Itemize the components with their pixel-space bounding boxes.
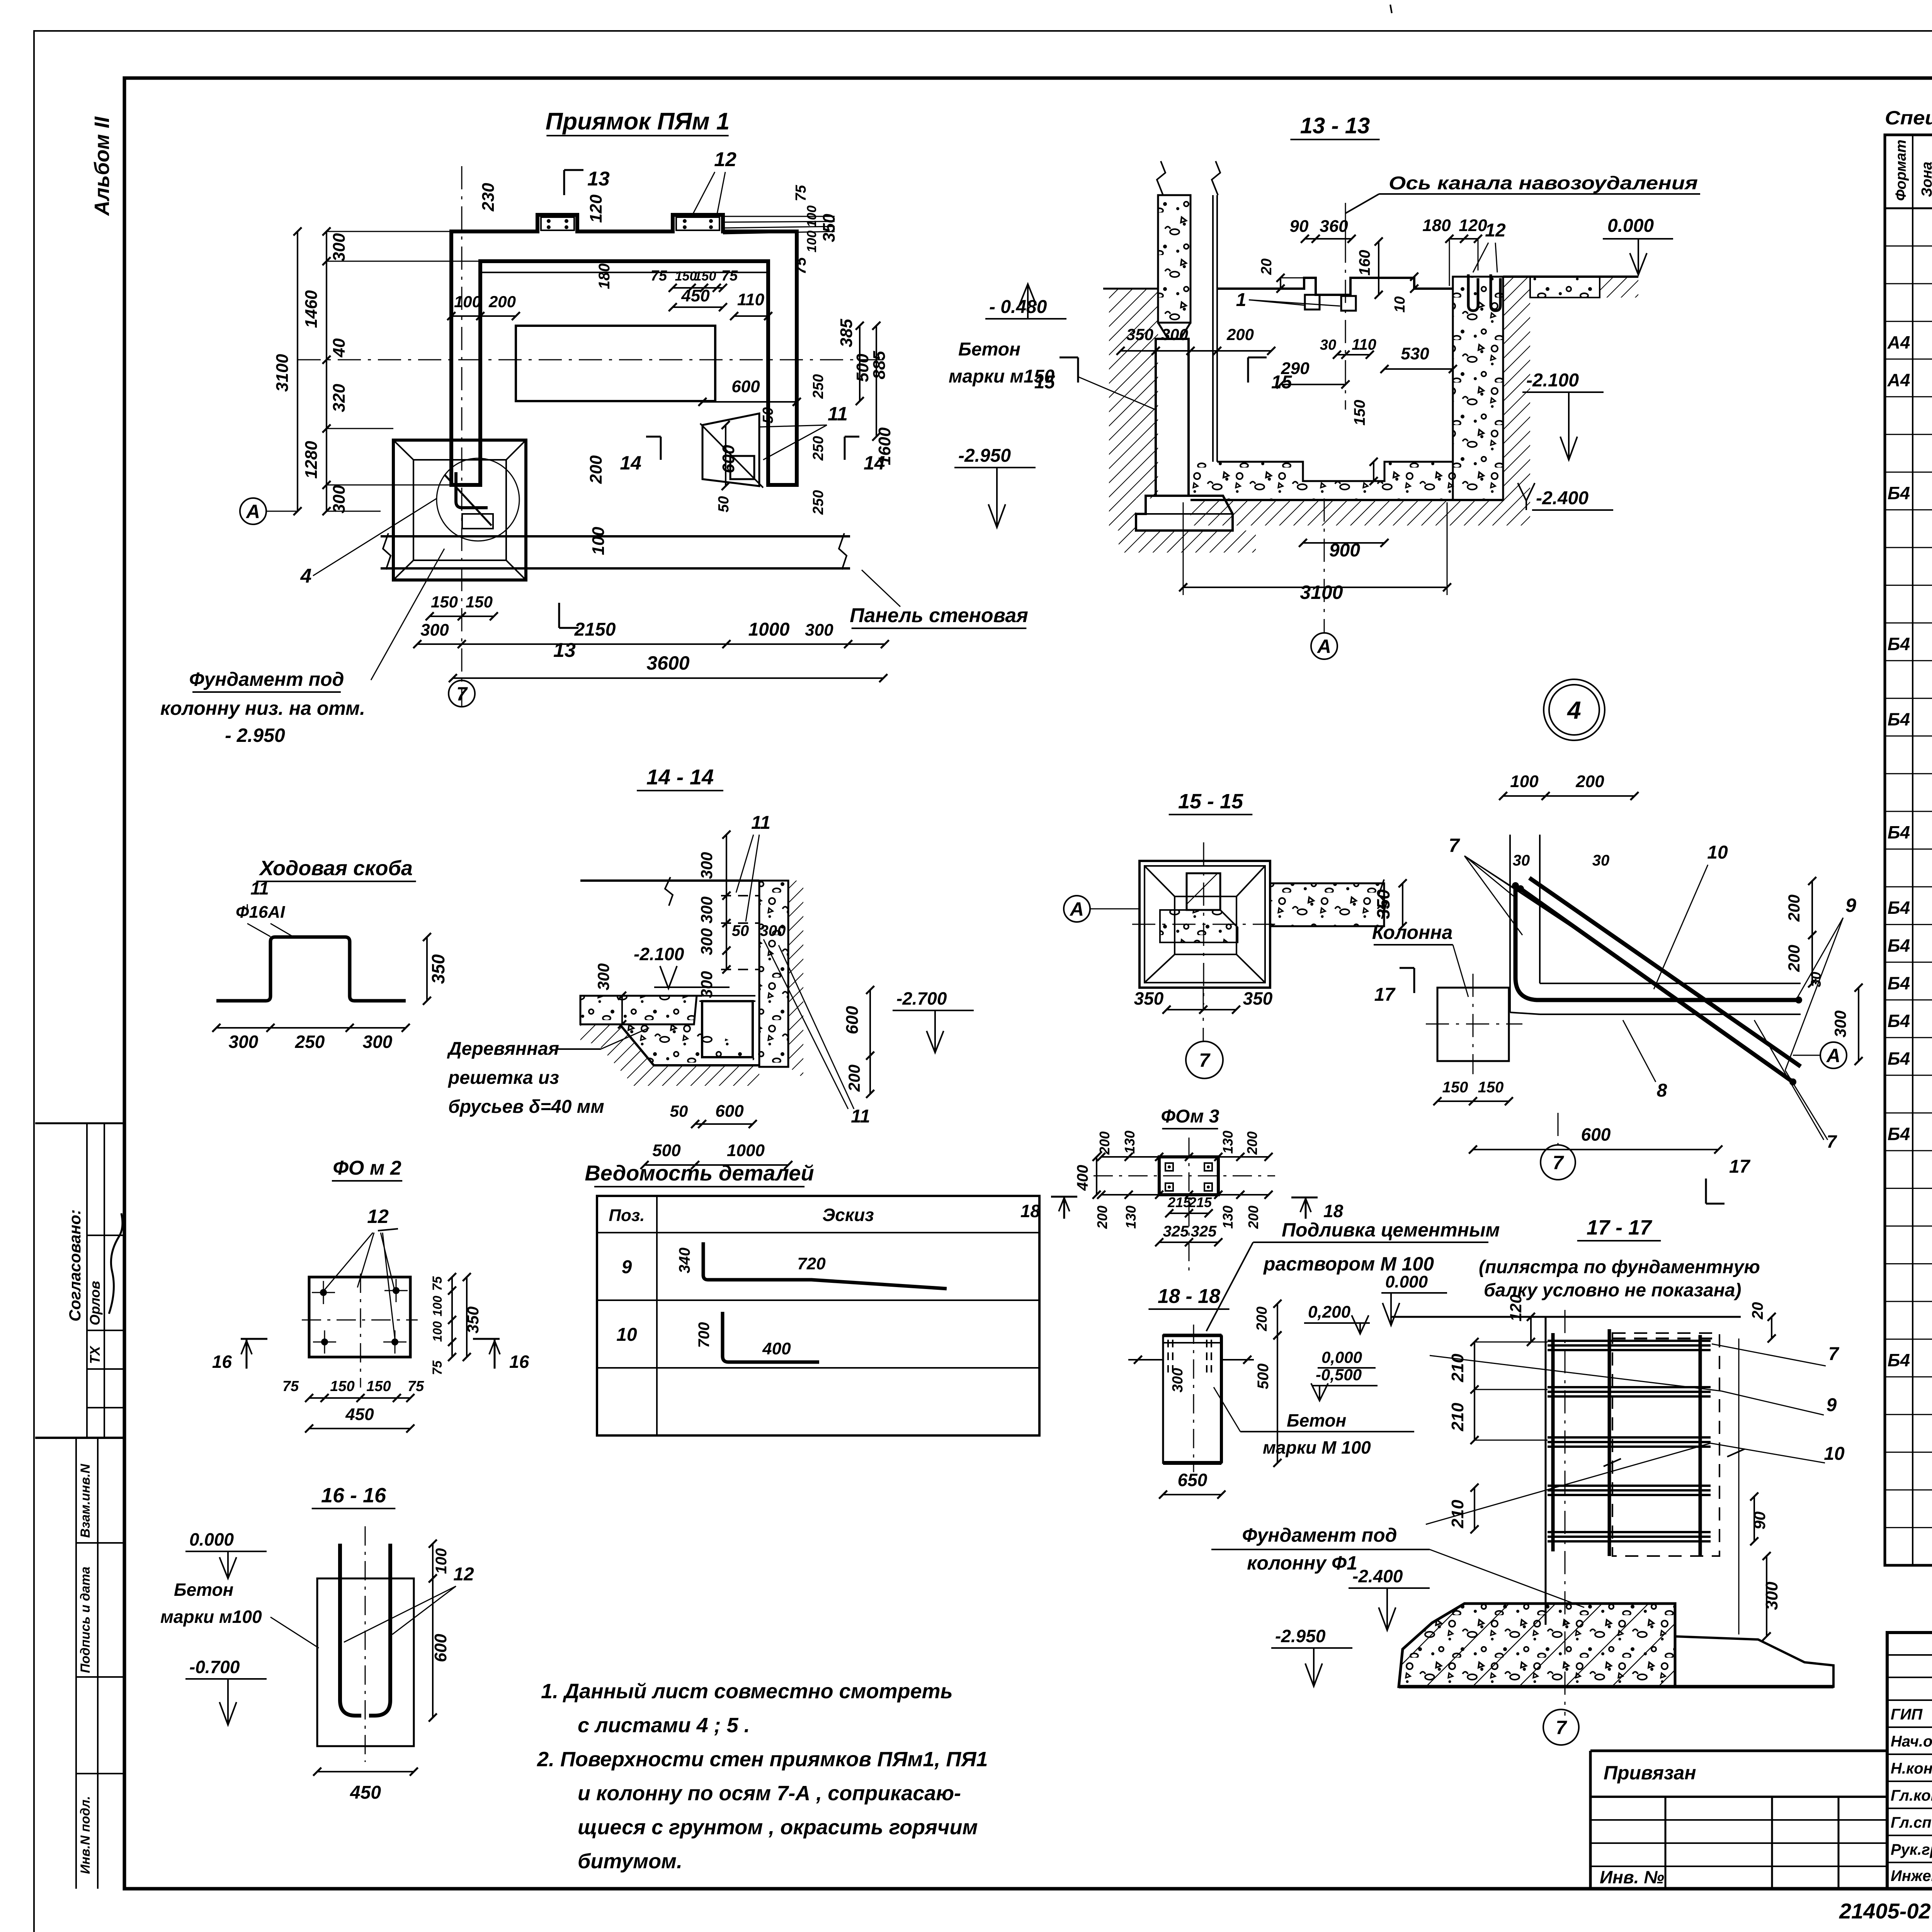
svg-text:ФО м 2: ФО м 2 — [333, 1157, 401, 1179]
svg-text:ГИП: ГИП — [1891, 1706, 1923, 1723]
svg-text:7: 7 — [1553, 1152, 1564, 1173]
svg-text:7: 7 — [1449, 835, 1460, 856]
svg-text:450: 450 — [345, 1405, 374, 1424]
svg-text:12: 12 — [453, 1564, 474, 1585]
svg-text:500: 500 — [652, 1141, 681, 1160]
svg-text:А4: А4 — [1887, 370, 1910, 390]
svg-text:90: 90 — [1290, 217, 1309, 236]
svg-text:300: 300 — [1762, 1582, 1781, 1610]
svg-text:210: 210 — [1448, 1500, 1467, 1529]
svg-text:600: 600 — [731, 377, 760, 396]
svg-text:15: 15 — [1271, 372, 1293, 393]
svg-text:300: 300 — [697, 928, 716, 955]
svg-text:Б4: Б4 — [1888, 973, 1910, 993]
svg-text:8: 8 — [1657, 1080, 1667, 1101]
svg-text:2150: 2150 — [574, 619, 616, 640]
svg-text:200: 200 — [1575, 772, 1604, 791]
svg-text:300: 300 — [1170, 1368, 1186, 1392]
svg-text:Ось канала навозоудаления: Ось канала навозоудаления — [1389, 173, 1698, 194]
svg-text:325: 325 — [1191, 1223, 1217, 1240]
svg-text:Б4: Б4 — [1888, 634, 1910, 654]
svg-text:Формат: Формат — [1893, 139, 1909, 201]
svg-text:300: 300 — [760, 922, 786, 939]
svg-text:Б4: Б4 — [1888, 1048, 1910, 1068]
svg-text:17: 17 — [1729, 1156, 1751, 1177]
svg-text:100: 100 — [589, 527, 608, 555]
svg-text:120: 120 — [587, 194, 605, 223]
svg-text:А: А — [1316, 636, 1331, 657]
svg-text:7: 7 — [1199, 1049, 1211, 1071]
svg-text:600: 600 — [843, 1006, 862, 1034]
svg-text:150: 150 — [1351, 400, 1368, 426]
svg-text:500: 500 — [853, 354, 872, 382]
svg-text:200: 200 — [1254, 1306, 1270, 1331]
svg-text:11: 11 — [851, 1106, 870, 1127]
svg-text:230: 230 — [479, 183, 498, 212]
svg-text:150: 150 — [675, 269, 697, 284]
svg-text:450: 450 — [350, 1782, 381, 1803]
svg-text:75: 75 — [430, 1276, 445, 1291]
svg-text:Б4: Б4 — [1888, 709, 1910, 729]
svg-text:200: 200 — [1785, 945, 1803, 972]
svg-text:7: 7 — [1828, 1344, 1840, 1364]
svg-text:13: 13 — [553, 639, 576, 662]
svg-text:130: 130 — [1220, 1206, 1236, 1229]
svg-text:100: 100 — [430, 1296, 444, 1316]
svg-text:50: 50 — [670, 1102, 688, 1120]
svg-text:250: 250 — [810, 374, 827, 399]
svg-text:18 - 18: 18 - 18 — [1158, 1285, 1220, 1308]
svg-text:600: 600 — [431, 1634, 450, 1662]
svg-text:50: 50 — [716, 496, 732, 512]
svg-text:17 - 17: 17 - 17 — [1587, 1216, 1653, 1239]
svg-text:9: 9 — [1827, 1395, 1837, 1415]
svg-text:4: 4 — [1566, 696, 1581, 724]
svg-text:Ходовая скоба: Ходовая скоба — [259, 857, 413, 880]
svg-text:Колонна: Колонна — [1372, 922, 1453, 943]
svg-text:11: 11 — [751, 813, 770, 833]
svg-text:-2.400: -2.400 — [1536, 488, 1588, 509]
svg-text:решетка из: решетка из — [447, 1068, 559, 1088]
svg-text:130: 130 — [1122, 1131, 1138, 1154]
svg-text:13 - 13: 13 - 13 — [1300, 113, 1370, 138]
svg-text:(пилястра по фундаментную: (пилястра по фундаментную — [1479, 1257, 1760, 1277]
svg-text:Деревянная: Деревянная — [447, 1039, 559, 1059]
svg-text:18: 18 — [1020, 1201, 1041, 1221]
svg-text:150: 150 — [1478, 1079, 1504, 1096]
svg-text:350: 350 — [428, 954, 448, 984]
svg-text:16: 16 — [212, 1352, 232, 1372]
svg-text:300: 300 — [363, 1032, 393, 1052]
svg-text:марки м100: марки м100 — [160, 1607, 262, 1627]
svg-text:200: 200 — [1785, 895, 1803, 922]
svg-text:350: 350 — [820, 214, 838, 242]
svg-text:130: 130 — [1123, 1206, 1139, 1229]
svg-text:марки м150: марки м150 — [949, 366, 1054, 387]
svg-text:Бетон: Бетон — [958, 339, 1020, 360]
svg-text:4: 4 — [300, 565, 312, 587]
svg-text:Эскиз: Эскиз — [822, 1205, 874, 1225]
svg-text:20: 20 — [1259, 259, 1275, 275]
svg-text:14: 14 — [864, 452, 885, 474]
svg-text:-2.100: -2.100 — [1526, 370, 1579, 391]
svg-text:120: 120 — [1507, 1294, 1525, 1321]
svg-text:Гл.констр.: Гл.констр. — [1891, 1787, 1932, 1804]
svg-text:150: 150 — [1442, 1079, 1468, 1096]
svg-text:марки М 100: марки М 100 — [1263, 1437, 1371, 1458]
svg-text:Б4: Б4 — [1888, 1124, 1910, 1144]
svg-text:300: 300 — [594, 963, 612, 990]
svg-text:300: 300 — [1831, 1010, 1849, 1037]
svg-text:Нач.отд.: Нач.отд. — [1891, 1733, 1932, 1750]
svg-text:16 - 16: 16 - 16 — [321, 1484, 386, 1507]
svg-text:100: 100 — [804, 231, 819, 253]
svg-text:-2.100: -2.100 — [634, 944, 684, 964]
svg-text:215: 215 — [1167, 1194, 1191, 1210]
svg-text:215: 215 — [1188, 1194, 1212, 1210]
svg-text:100: 100 — [430, 1321, 444, 1342]
svg-text:75: 75 — [282, 1378, 299, 1395]
svg-text:75: 75 — [651, 268, 667, 284]
svg-text:11: 11 — [828, 403, 848, 425]
svg-text:350: 350 — [1126, 325, 1153, 344]
svg-text:300: 300 — [805, 621, 833, 639]
svg-text:210: 210 — [1448, 1403, 1467, 1432]
svg-text:брусьев δ=40 мм: брусьев δ=40 мм — [448, 1097, 604, 1117]
svg-text:А: А — [245, 501, 260, 522]
svg-text:1280: 1280 — [302, 441, 321, 479]
svg-text:колонну Ф1: колонну Ф1 — [1247, 1552, 1357, 1574]
svg-text:Инв.N подл.: Инв.N подл. — [78, 1796, 93, 1874]
svg-text:350: 350 — [1243, 988, 1273, 1009]
svg-text:250: 250 — [810, 490, 827, 515]
svg-text:600: 600 — [719, 445, 738, 473]
svg-text:7: 7 — [1827, 1131, 1837, 1151]
svg-text:20: 20 — [1749, 1302, 1766, 1320]
svg-text:0.000: 0.000 — [189, 1529, 234, 1549]
svg-text:885: 885 — [870, 351, 889, 379]
svg-text:500: 500 — [1255, 1364, 1272, 1389]
svg-text:Инв. №: Инв. № — [1600, 1867, 1664, 1887]
svg-text:-2.700: -2.700 — [896, 988, 947, 1009]
svg-text:300: 300 — [420, 621, 449, 639]
svg-text:150: 150 — [366, 1378, 391, 1395]
svg-text:Б4: Б4 — [1888, 822, 1910, 842]
svg-text:щиеся с грунтом , окрасить: щиеся с грунтом , окрасить горячим — [578, 1816, 978, 1839]
svg-text:350: 350 — [1373, 889, 1393, 919]
svg-text:ТХ: ТХ — [87, 1345, 103, 1364]
svg-text:700: 700 — [696, 1322, 713, 1348]
svg-text:16: 16 — [509, 1352, 529, 1372]
svg-text:1000: 1000 — [727, 1141, 765, 1160]
svg-text:14 - 14: 14 - 14 — [646, 765, 714, 789]
svg-text:10: 10 — [616, 1325, 637, 1345]
svg-text:300: 300 — [229, 1032, 259, 1052]
svg-text:12: 12 — [714, 148, 736, 171]
svg-text:200: 200 — [587, 455, 605, 484]
svg-text:Б4: Б4 — [1888, 1011, 1910, 1031]
svg-text:250: 250 — [810, 436, 827, 461]
svg-text:160: 160 — [1356, 250, 1373, 276]
svg-text:150: 150 — [330, 1378, 354, 1395]
svg-text:75: 75 — [721, 268, 738, 284]
svg-text:100: 100 — [1510, 772, 1539, 791]
svg-text:Спецификация элементов приям: Спецификация элементов приямка ПЯм1 и мо… — [1885, 107, 1932, 129]
svg-text:300: 300 — [1161, 325, 1188, 344]
svg-text:120: 120 — [1459, 216, 1487, 235]
svg-text:400: 400 — [762, 1339, 791, 1358]
svg-text:А: А — [1069, 898, 1084, 920]
svg-text:Панель стеновая: Панель стеновая — [850, 604, 1028, 627]
svg-text:360: 360 — [1320, 217, 1348, 236]
svg-text:180: 180 — [596, 264, 613, 289]
svg-text:ФОм 3: ФОм 3 — [1161, 1106, 1219, 1127]
svg-text:17: 17 — [1374, 985, 1396, 1005]
svg-text:350: 350 — [464, 1306, 482, 1333]
svg-text:Зона: Зона — [1919, 162, 1932, 197]
svg-text:300: 300 — [330, 233, 349, 262]
svg-text:и колонну по осям 7-А , со: и колонну по осям 7-А , соприкасаю- — [578, 1782, 961, 1805]
svg-text:75: 75 — [792, 257, 809, 274]
svg-text:10: 10 — [1707, 842, 1728, 863]
svg-text:150: 150 — [694, 269, 716, 284]
svg-text:Гл.спец.: Гл.спец. — [1891, 1814, 1932, 1831]
svg-text:100: 100 — [454, 293, 481, 311]
svg-text:3600: 3600 — [646, 652, 689, 674]
svg-text:3100: 3100 — [1300, 582, 1343, 603]
svg-text:75: 75 — [408, 1378, 424, 1395]
svg-text:Взам.инв.N: Взам.инв.N — [78, 1463, 93, 1538]
svg-text:30: 30 — [1320, 337, 1336, 353]
svg-text:150: 150 — [431, 593, 458, 611]
svg-text:12: 12 — [1485, 220, 1506, 241]
svg-text:0.000: 0.000 — [1385, 1272, 1428, 1291]
svg-text:А4: А4 — [1887, 332, 1910, 352]
svg-text:Н.контр.: Н.контр. — [1891, 1760, 1932, 1777]
svg-text:-2.950: -2.950 — [1275, 1626, 1326, 1646]
svg-text:12: 12 — [367, 1206, 389, 1227]
svg-text:13: 13 — [587, 168, 610, 190]
svg-text:200: 200 — [1245, 1206, 1261, 1229]
svg-text:300: 300 — [330, 485, 349, 514]
svg-text:- 0.480: - 0.480 — [989, 297, 1047, 317]
svg-text:Б4: Б4 — [1888, 1350, 1910, 1370]
svg-text:100: 100 — [804, 206, 819, 228]
svg-text:40: 40 — [330, 338, 349, 357]
svg-text:Подпись и дата: Подпись и дата — [78, 1566, 93, 1673]
svg-text:300: 300 — [697, 896, 716, 923]
svg-text:10: 10 — [1392, 296, 1408, 313]
svg-text:-2.400: -2.400 — [1352, 1566, 1403, 1586]
svg-text:75: 75 — [430, 1360, 445, 1375]
svg-text:150: 150 — [466, 593, 493, 611]
svg-text:50: 50 — [760, 407, 776, 423]
svg-text:Орлов: Орлов — [87, 1281, 103, 1325]
svg-text:100: 100 — [433, 1548, 450, 1574]
svg-text:-0.700: -0.700 — [189, 1657, 240, 1677]
svg-text:30: 30 — [1513, 852, 1530, 869]
svg-text:с листами 4 ; 5 .: с листами 4 ; 5 . — [578, 1714, 750, 1737]
svg-text:385: 385 — [837, 319, 856, 347]
svg-text:- 2.950: - 2.950 — [225, 724, 285, 746]
svg-text:200: 200 — [845, 1065, 863, 1092]
svg-text:200: 200 — [1094, 1206, 1110, 1229]
svg-text:-0,500: -0,500 — [1316, 1366, 1362, 1384]
svg-text:180: 180 — [1422, 216, 1451, 235]
svg-text:30: 30 — [1808, 972, 1824, 987]
svg-text:50: 50 — [732, 922, 749, 939]
svg-text:21405-02: 21405-02 — [1839, 1899, 1931, 1923]
svg-text:-2.950: -2.950 — [958, 446, 1011, 466]
svg-text:Фундамент под: Фундамент под — [1242, 1524, 1397, 1546]
svg-text:200: 200 — [1244, 1131, 1260, 1155]
svg-text:90: 90 — [1750, 1512, 1769, 1530]
svg-text:450: 450 — [681, 286, 710, 305]
svg-text:Поз.: Поз. — [609, 1206, 645, 1225]
svg-text:Ф16АI: Ф16АI — [236, 903, 285, 922]
svg-text:18: 18 — [1323, 1201, 1344, 1221]
svg-text:0.000: 0.000 — [1607, 216, 1654, 236]
svg-text:10: 10 — [1824, 1444, 1845, 1464]
svg-text:200: 200 — [1226, 325, 1254, 344]
svg-text:340: 340 — [676, 1248, 693, 1274]
svg-text:Альбом II: Альбом II — [90, 116, 114, 216]
svg-text:600: 600 — [1581, 1124, 1611, 1145]
svg-text:130: 130 — [1220, 1131, 1236, 1154]
svg-text:битумом.: битумом. — [578, 1850, 682, 1873]
svg-text:Приямок ПЯм 1: Приямок ПЯм 1 — [546, 108, 730, 135]
svg-text:Б4: Б4 — [1888, 483, 1910, 503]
svg-text:А: А — [1826, 1045, 1840, 1066]
svg-text:1: 1 — [1236, 290, 1247, 310]
svg-text:Инженер: Инженер — [1891, 1867, 1932, 1884]
svg-text:200: 200 — [488, 293, 516, 311]
svg-text:300: 300 — [697, 852, 716, 879]
svg-text:200: 200 — [1097, 1131, 1112, 1155]
svg-text:15 - 15: 15 - 15 — [1178, 790, 1243, 813]
svg-text:1000: 1000 — [748, 619, 790, 640]
svg-text:Б4: Б4 — [1888, 898, 1910, 918]
svg-text:0,000: 0,000 — [1321, 1348, 1362, 1366]
svg-text:колонну низ. на отм.: колонну низ. на отм. — [160, 697, 365, 719]
svg-text:Фундамент под: Фундамент под — [189, 668, 344, 690]
svg-text:7: 7 — [1556, 1717, 1567, 1738]
svg-text:110: 110 — [737, 290, 765, 309]
svg-text:325: 325 — [1163, 1223, 1189, 1240]
svg-text:раствором М 100: раствором М 100 — [1263, 1253, 1434, 1275]
svg-text:530: 530 — [1401, 344, 1429, 363]
svg-text:250: 250 — [295, 1032, 325, 1052]
svg-text:11: 11 — [250, 878, 269, 898]
svg-text:9: 9 — [1845, 895, 1856, 916]
svg-text:400: 400 — [1074, 1165, 1091, 1191]
svg-text:7: 7 — [456, 683, 468, 705]
svg-text:320: 320 — [330, 384, 349, 412]
svg-text:Бетон: Бетон — [1287, 1410, 1346, 1430]
svg-text:9: 9 — [622, 1257, 632, 1277]
svg-text:1460: 1460 — [302, 290, 321, 328]
svg-text:350: 350 — [1134, 988, 1164, 1009]
svg-text:650: 650 — [1178, 1470, 1207, 1490]
svg-text:720: 720 — [797, 1254, 826, 1273]
svg-text:Бетон: Бетон — [174, 1580, 233, 1600]
svg-text:3100: 3100 — [273, 354, 292, 392]
svg-text:Согласовано:: Согласовано: — [66, 1209, 84, 1321]
svg-text:300: 300 — [697, 971, 716, 998]
svg-text:Привязан: Привязан — [1604, 1762, 1696, 1784]
svg-text:2. Поверхности стен приямко: 2. Поверхности стен приямков ПЯм1, ПЯ1 — [537, 1748, 988, 1771]
svg-text:75: 75 — [793, 185, 809, 201]
svg-text:Б4: Б4 — [1888, 935, 1910, 956]
svg-text:Ведомость деталей: Ведомость деталей — [585, 1161, 814, 1185]
svg-text:600: 600 — [715, 1102, 744, 1121]
svg-text:Рук.гр.: Рук.гр. — [1891, 1841, 1932, 1858]
svg-text:14: 14 — [620, 452, 641, 474]
svg-text:30: 30 — [1592, 852, 1610, 869]
svg-text:0,200: 0,200 — [1308, 1303, 1351, 1321]
svg-text:Подливка цементным: Подливка цементным — [1282, 1219, 1500, 1241]
svg-text:1. Данный лист совместно: 1. Данный лист совместно смотреть — [541, 1680, 953, 1703]
